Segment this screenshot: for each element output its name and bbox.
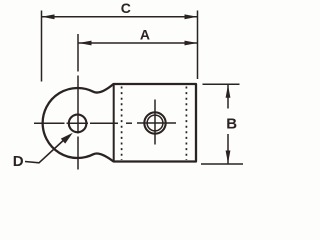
- C left arrowhead: [42, 14, 55, 19]
- A left arrowhead: [79, 41, 92, 46]
- dimension line B lower stem: [227, 134, 229, 164]
- leader line from D: [25, 138, 67, 163]
- dimension line A: [79, 42, 198, 44]
- C/A right extension line: [197, 11, 199, 80]
- block hole inner circle: [147, 115, 163, 131]
- svg-text:A: A: [140, 27, 150, 43]
- B bottom arrowhead: [226, 151, 231, 164]
- block left edge: [113, 85, 115, 162]
- B top arrowhead: [226, 85, 231, 98]
- leader arrowhead: [61, 133, 73, 144]
- vertical centerline of boss (also A extension line): [77, 34, 79, 170]
- block hole outer circle: [144, 112, 165, 133]
- C left extension line: [41, 11, 43, 82]
- horizontal centerline: [34, 122, 176, 124]
- svg-text:B: B: [226, 116, 237, 133]
- dimension line C: [42, 16, 198, 18]
- part outline (rod-eye body: left boss circle, neck, right block): [43, 84, 196, 162]
- C right arrowhead: [185, 14, 198, 19]
- svg-text:C: C: [121, 0, 131, 16]
- B bottom extension line: [201, 163, 243, 165]
- hidden line left (dotted): [121, 87, 123, 161]
- dimension line B upper stem: [227, 85, 229, 109]
- B top extension line: [203, 83, 240, 85]
- hidden line right (dotted): [185, 87, 187, 161]
- svg-text:D: D: [13, 153, 24, 170]
- A right arrowhead: [185, 41, 198, 46]
- left boss hole: [69, 115, 87, 133]
- vertical centerline of block hole: [154, 100, 156, 145]
